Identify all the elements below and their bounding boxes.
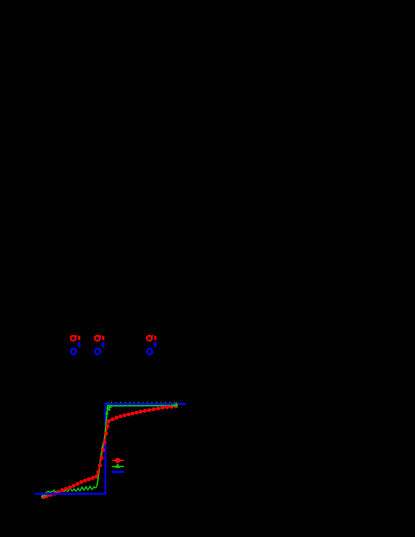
green curve: lower segment triangle markers bbox=[45, 492, 48, 495]
legend: green entry triangle marker bbox=[115, 463, 120, 468]
nitro group 3: superscript tick (red) bbox=[151, 335, 154, 337]
nitro group 2: O=N bond upper half (red) bbox=[102, 336, 104, 340]
green curve: plateau right-end line over red bbox=[171, 404, 178, 406]
green curve: steep rise markers bbox=[101, 445, 105, 448]
blue step: upper horizontal line bbox=[105, 403, 186, 405]
legend: red entry line bbox=[112, 459, 124, 461]
legend: green entry line bbox=[112, 466, 124, 468]
nitro group 2: O label lower (blue) bbox=[95, 349, 100, 355]
green curve: lower noisy segment line bbox=[42, 487, 96, 496]
legend: blue entry line bbox=[112, 471, 124, 473]
green curve: first data points below step (markers) bbox=[41, 494, 44, 497]
nitro group 1: superscript tick (red) bbox=[75, 335, 78, 337]
nitro group 3: oxygen O label (red) bbox=[147, 336, 152, 341]
legend: red entry circle marker bbox=[115, 458, 120, 463]
red curve: lower segment line bbox=[43, 472, 98, 497]
red curve: steep rise and upper tail line bbox=[96, 406, 176, 476]
nitro group 3: O=N bond upper half (red) bbox=[154, 336, 156, 340]
red curve: lower segment circle markers bbox=[43, 495, 47, 499]
nitro group 3: O label lower (blue) bbox=[147, 349, 152, 355]
nitro group 1: O=N bond upper half (red) bbox=[78, 336, 80, 340]
nitro group 1: N plus charge (blue) bbox=[78, 342, 80, 347]
blue step: vertical transition line bbox=[104, 403, 106, 494]
nitro group 2: superscript tick (red) bbox=[99, 335, 102, 337]
blue step: lower horizontal line bbox=[35, 493, 106, 495]
nitro group 1: oxygen O label (red) bbox=[71, 336, 76, 341]
green curve: steep rise and plateau line bbox=[96, 405, 178, 488]
nitro group 1: O label lower (blue) bbox=[71, 349, 76, 355]
nitro group 2: oxygen O label (red) bbox=[95, 336, 100, 341]
green curve: upper plateau triangle markers bbox=[110, 402, 114, 407]
nitro group 2: N plus charge (blue) bbox=[102, 342, 104, 347]
nitro group 3: N plus charge (blue) bbox=[154, 342, 156, 347]
red curve: steep and upper tail circle markers bbox=[96, 470, 100, 474]
